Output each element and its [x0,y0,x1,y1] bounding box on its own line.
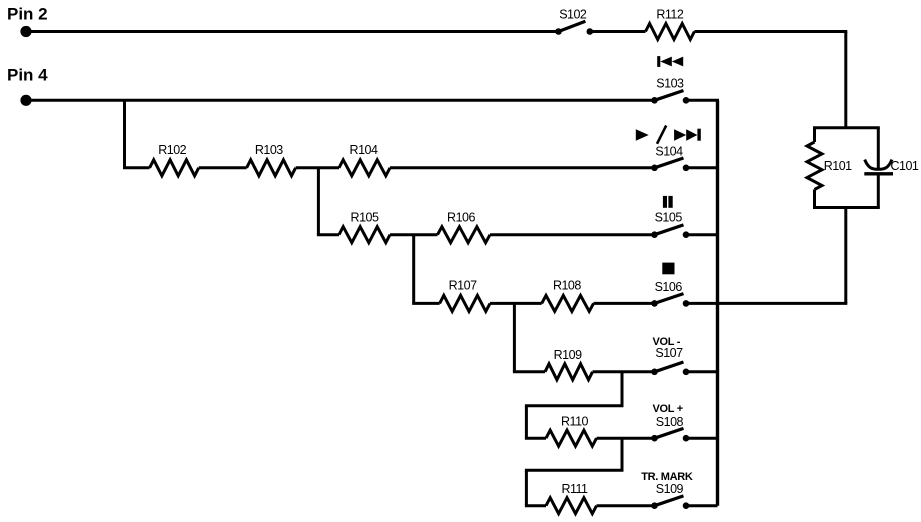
resistor R107 [440,295,490,311]
wire to R110 [525,437,546,440]
wire R107 to node D [490,302,542,305]
resistor R104 [339,160,390,176]
wire R101 bottom lead [813,190,816,208]
svg-text:R107: R107 [449,279,477,293]
wire jog2 down to R111 [525,470,528,506]
icon play/ff [636,126,701,144]
resistor R101 [807,142,822,190]
svg-text:S107: S107 [655,346,683,360]
resistor R112 [646,24,695,40]
switch S105 [651,225,689,238]
svg-text:R108: R108 [553,279,581,293]
svg-text:S106: S106 [655,280,683,294]
wire to R111 [525,504,546,507]
wire node D down [513,303,516,371]
svg-text:R112: R112 [656,7,684,21]
wire R111 to S109 [597,504,655,507]
wire R102 to R103 [199,166,247,169]
bus vertical [716,100,719,505]
svg-text:Pin 2: Pin 2 [7,5,48,24]
svg-text:S103: S103 [656,77,684,91]
svg-text:R102: R102 [158,143,186,157]
resistor R110 [546,430,597,446]
svg-text:VOL +: VOL + [652,403,682,415]
wire C101 bottom lead [877,176,880,208]
resistor R103 [247,160,296,176]
resistor R106 [438,227,491,243]
capacitor C101 [864,160,893,174]
wire feed down to tank top [844,32,847,128]
wire R104 to S104 [390,166,655,169]
switch S102 [555,21,593,35]
switch S109 [651,496,689,509]
wire tank top edge [813,126,880,129]
wire Pin4 branch down [123,100,126,168]
wire S109 to bus [686,504,718,507]
switch S104 [651,158,689,171]
wire node B down [317,168,320,235]
wire C101 top lead [877,128,880,168]
switch S103 [651,91,689,104]
icon rewind [657,56,683,67]
resistor R105 [339,227,390,243]
icon pause [663,196,673,208]
wire S102 to R112 [590,30,646,33]
wire Pin4 to S103 [26,99,655,102]
switch S108 [651,428,689,441]
wire node D to R109 [513,370,545,373]
wire R110 to S108 [597,437,655,440]
wire node E down from R109 [621,372,624,406]
wire R108 to S106 [594,302,655,305]
resistor R108 [542,295,594,311]
resistor R111 [546,498,597,514]
wire jog2 horizontal [525,469,624,472]
wire R106 to S105 [490,233,655,236]
resistor R102 [150,160,199,176]
switch S106 [651,294,689,307]
svg-text:S109: S109 [656,482,684,496]
svg-text:S102: S102 [559,7,587,21]
resistor R109 [545,364,593,380]
svg-text:S108: S108 [656,415,684,429]
wire R105 to node C [390,233,438,236]
wire jog1 horizontal [525,404,624,407]
wire node B to R105 [317,233,339,236]
svg-text:R110: R110 [561,415,589,429]
svg-text:R103: R103 [255,143,283,157]
wire Pin2 to S102 [26,30,559,33]
wire jog1 down to R110 [525,406,528,438]
svg-text:R101: R101 [824,159,852,173]
svg-text:S105: S105 [655,210,683,224]
terminal Pin 2 [20,26,31,37]
svg-text:R111: R111 [561,482,588,496]
svg-text:R106: R106 [447,210,475,224]
wire R109 to S107 [593,370,655,373]
wire S108 to bus [686,437,718,440]
icon stop [662,263,674,275]
wire tank bottom feed down [844,208,847,304]
wire R112 to feed corner [694,30,847,33]
wire R103 to node B [296,166,339,169]
svg-text:Pin 4: Pin 4 [7,65,48,84]
switch S107 [651,362,689,375]
wire S106 to tank bottom feed [686,302,847,305]
wire node F down from R110 [621,438,624,470]
wire S107 to bus [686,370,718,373]
wire R101 top lead [813,128,816,142]
svg-text:R104: R104 [350,143,378,157]
svg-text:R105: R105 [351,210,379,224]
wire node C down [412,235,415,304]
wire tank bottom edge [813,206,880,209]
wire S105 to bus [686,233,718,236]
svg-text:S104: S104 [655,145,683,159]
wire S103 to bus [686,99,719,102]
wire node C to R107 [412,302,439,305]
svg-text:C101: C101 [891,159,919,173]
wire branch to R102 [123,166,150,169]
terminal Pin 4 [20,95,31,106]
svg-text:TR. MARK: TR. MARK [641,471,693,483]
wire S104 to bus [686,166,718,169]
svg-text:R109: R109 [554,348,582,362]
